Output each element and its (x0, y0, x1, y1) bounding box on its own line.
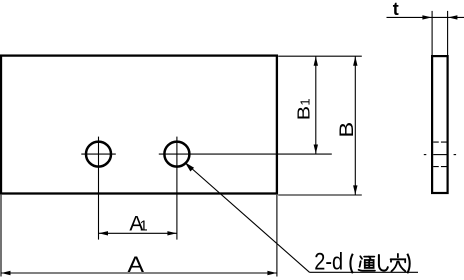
hole 2 vertical centerline / A1 extension (176, 137, 178, 240)
kanji 穴 (391, 254, 406, 271)
svg-text:t: t (393, 0, 399, 19)
label A (128, 253, 145, 278)
svg-text:1: 1 (298, 98, 313, 105)
svg-text:A: A (128, 253, 145, 278)
leader underline (310, 271, 419, 273)
svg-text:2-d: 2-d (314, 248, 343, 275)
t extension line right (447, 11, 449, 55)
hole 2 (right) (164, 142, 189, 167)
side view outline (432, 56, 448, 193)
note fullwidth close paren (407, 254, 409, 273)
note fullwidth open paren (350, 254, 352, 273)
extension line A right (276, 195, 278, 277)
note text 2-d (314, 248, 343, 275)
label B1 (294, 98, 314, 120)
t dimension line right (448, 16, 464, 18)
hole 1 vertical centerline / A1 extension (98, 137, 100, 240)
extension line top edge (278, 55, 362, 57)
leader arrow to hole 2 (185, 162, 194, 171)
dimension line A1 (99, 232, 177, 234)
hole 1 horizontal centerline (81, 153, 116, 155)
hole 1 (left) (86, 142, 111, 167)
t dimension line middle (432, 16, 448, 18)
extension line bottom edge (278, 194, 362, 196)
side view hole centerline (424, 154, 427, 156)
label B (336, 122, 357, 138)
dimension line B (354, 56, 356, 195)
extension line A left (0, 195, 2, 277)
svg-text:1: 1 (140, 219, 148, 235)
svg-text:B: B (336, 122, 357, 138)
dimension line A (1, 272, 277, 274)
kana し (379, 255, 388, 271)
plate front view outline (1, 56, 277, 194)
svg-text:B: B (294, 106, 314, 120)
dimension line B1 (315, 56, 317, 154)
t extension line left (431, 11, 433, 55)
leader line (186, 163, 310, 272)
kanji 通 (359, 256, 375, 270)
hole 2 horizontal centerline / B1 extension (159, 153, 332, 155)
side view hidden line (hole top) (433, 141, 446, 143)
side view hidden line (hole bottom) (433, 166, 446, 168)
t dimension line left (387, 16, 432, 18)
